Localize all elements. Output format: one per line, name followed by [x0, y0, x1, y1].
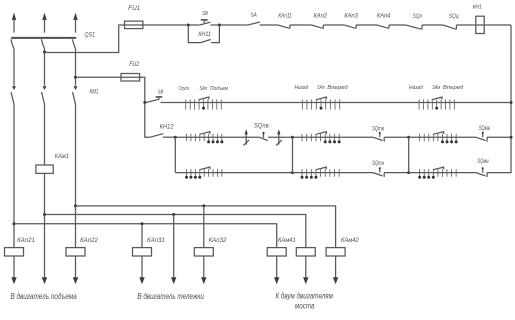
output arrow 7 [274, 277, 279, 284]
wire: phase L3 vertical to motor [75, 104, 77, 278]
svg-text:В двигатель подъема: В двигатель подъема [10, 292, 77, 301]
drum contacts SAм forward-positions [420, 132, 458, 144]
node: tap on L3 for control circuit 2 [74, 76, 77, 79]
contact КН12 [145, 103, 176, 138]
svg-text:SAп: SAп [200, 86, 208, 92]
svg-text:SQц: SQц [449, 13, 459, 20]
disconnect switch QS1 [11, 38, 76, 49]
supply arrow L1 [12, 13, 16, 33]
fuse FU1 [125, 21, 143, 29]
output arrow 9 [333, 277, 338, 284]
limit switch contact SQц (NC) [443, 25, 511, 30]
node: bus B tap on L2 [43, 213, 46, 216]
limit switch contact SQп (NC) [406, 25, 443, 30]
relay contact КАп2 (NC) [311, 25, 344, 29]
wire: group1/2 vertical link [292, 137, 294, 172]
svg-text:Спуск: Спуск [179, 86, 190, 92]
wire: trolley drop 1 [141, 224, 143, 278]
limit switch SQмн (NC) [476, 167, 487, 177]
wire: group2/3 vertical link [408, 137, 410, 172]
thermal element КАм1 [36, 165, 53, 173]
node: tap on L2 for control circuit 1 [43, 51, 46, 54]
drum contacts SAп down-positions [185, 167, 222, 179]
svg-text:КАм41: КАм41 [278, 237, 296, 244]
svg-text:КАп32: КАп32 [209, 237, 227, 244]
node: trolley drop 1 [141, 222, 144, 225]
output arrow 5 [171, 277, 176, 284]
node: bus C tap on L1 [13, 222, 16, 225]
switch SA [248, 22, 278, 25]
node: row3 branch junction [174, 136, 177, 139]
pushbutton SB (row 1) [200, 20, 211, 25]
svg-text:КН11: КН11 [198, 31, 211, 38]
fuse FU2 [121, 74, 140, 82]
svg-text:КАп22: КАп22 [80, 237, 98, 244]
node: trolley drop 3 [202, 204, 205, 207]
svg-text:SAм: SAм [432, 85, 440, 91]
svg-text:КАп3: КАп3 [344, 12, 358, 19]
svg-text:SQтв: SQтв [372, 126, 384, 133]
svg-text:Назад: Назад [409, 85, 424, 91]
wire: three phase verticals from QS1 to KM1 [14, 49, 76, 86]
wire: row3 trolley lower branch [293, 172, 409, 174]
wire: phase L1 vertical to motor [13, 104, 15, 278]
drum controller SAп (hoist master switch) [186, 97, 222, 110]
svg-text:SB: SB [202, 11, 208, 17]
wire: row 2 main [161, 102, 512, 104]
relay contact КАп4 (NC) [377, 25, 406, 29]
node: group1/2 lower junction [291, 171, 294, 174]
node: SB right junction [218, 24, 221, 27]
output arrow 2 [42, 277, 47, 284]
node: bus A tap on L3 [74, 204, 77, 207]
svg-text:В двигатель тележки: В двигатель тележки [137, 292, 204, 301]
wire: bus C (from L1) [14, 224, 277, 278]
wire: SB to SA [210, 24, 247, 26]
wire: bus A (from L3) [76, 206, 336, 278]
thermal element КАп21 [5, 248, 24, 256]
supply arrow L3 [73, 13, 77, 33]
wire: L3 tap through FU2 down to row 2 [76, 77, 145, 102]
node: group2/3 upper junction [407, 136, 410, 139]
svg-text:КАп11: КАп11 [278, 12, 292, 19]
wire: phase L2 vertical to motor [44, 104, 46, 278]
svg-text:SQп: SQп [413, 13, 423, 20]
svg-text:КАп31: КАп31 [147, 237, 165, 244]
wire: bus B (from L2) [45, 215, 306, 279]
svg-text:КН12: КН12 [160, 123, 175, 130]
svg-text:FU2: FU2 [129, 61, 139, 68]
pushbutton SB (row 2) [146, 97, 162, 103]
output arrow 4 [139, 277, 144, 284]
drum contacts SAм back-positions [418, 167, 456, 179]
thermal element КАп31 [133, 248, 152, 256]
wire: row3 hoist lower branch [175, 172, 292, 174]
supply arrow L2 [42, 13, 46, 33]
limit switch SQпв (hoist up, dual-arrow) [243, 130, 281, 146]
relay coil КН1 [476, 16, 484, 33]
wire: L2 tap to FU1 riser [45, 25, 200, 53]
thermal element КАп22 [66, 248, 85, 256]
svg-text:КАм1: КАм1 [55, 153, 69, 160]
drum contacts SAт back-positions [301, 167, 340, 179]
wire: row3 trolley upper branch [293, 136, 409, 138]
svg-text:SQмв: SQмв [479, 125, 491, 132]
wire: row3 left vertical [174, 137, 176, 172]
drum controller SAт (trolley master switch) [302, 97, 339, 110]
wire: row3 bridge lower branch [409, 172, 476, 174]
thermal element КАм42 [326, 248, 345, 256]
wire: trolley drop 3 [203, 206, 205, 278]
wire: trolley drop 2 [173, 215, 175, 279]
output arrow 8 [303, 277, 308, 284]
svg-text:К двум двигателям: К двум двигателям [275, 291, 333, 300]
wire: row3 hoist upper branch [175, 136, 292, 138]
svg-text:SAт: SAт [317, 85, 324, 91]
svg-text:КН1: КН1 [473, 4, 482, 10]
thermal element unnamed [296, 248, 315, 256]
node: group1/2 upper junction [291, 136, 294, 139]
node: right bus / row2 junction [510, 101, 513, 104]
drum contacts SAп up-positions [187, 132, 224, 144]
svg-text:SQтн: SQтн [372, 160, 384, 167]
thermal element КАп32 [194, 248, 213, 256]
drum contacts SAт forward-positions [302, 132, 341, 144]
node: trolley drop 2 [172, 213, 175, 216]
relay contact КАп3 (NC) [344, 25, 377, 29]
drum controller SAм (bridge master switch) [419, 97, 454, 110]
output arrow 3 [73, 277, 78, 284]
relay contact КАп11 (NC) [278, 25, 312, 29]
svg-text:Вперед: Вперед [327, 85, 348, 91]
svg-text:моста: моста [295, 302, 315, 311]
svg-text:SA: SA [251, 12, 257, 18]
node: SB left junction [187, 24, 190, 27]
limit switch SQмв (NC) [476, 132, 487, 142]
node: group2/3 lower junction [407, 171, 410, 174]
node: row2 left junction [143, 101, 146, 104]
svg-text:Назад: Назад [295, 85, 309, 91]
svg-text:КАм42: КАм42 [341, 237, 359, 244]
svg-text:Вперед: Вперед [443, 85, 464, 91]
limit switch SQтн (NC) [373, 167, 384, 177]
thermal element КАм41 [267, 248, 286, 256]
wire: row3 bridge upper branch [409, 136, 511, 138]
svg-text:QS1: QS1 [85, 32, 96, 39]
svg-text:SQпв: SQпв [254, 122, 270, 129]
svg-text:КАп4: КАп4 [377, 12, 391, 19]
output arrow 6 [201, 277, 206, 284]
wire: right return bus [487, 25, 511, 173]
output arrow 1 [11, 277, 16, 284]
svg-text:КАп21: КАп21 [17, 237, 35, 244]
svg-text:FU1: FU1 [128, 5, 140, 12]
svg-text:КАп2: КАп2 [313, 12, 327, 19]
contactor KM1 main contacts (3 poles) [11, 86, 78, 104]
svg-text:SQмн: SQмн [477, 158, 489, 165]
node: right bus / row3 junction [510, 136, 513, 139]
svg-text:КМ1: КМ1 [90, 88, 99, 95]
svg-text:Подъем: Подъем [210, 86, 228, 92]
svg-text:SB: SB [158, 90, 164, 96]
contact КН11 (seal-in bypass) [188, 25, 219, 43]
limit switch SQтв (NC) [373, 132, 384, 142]
